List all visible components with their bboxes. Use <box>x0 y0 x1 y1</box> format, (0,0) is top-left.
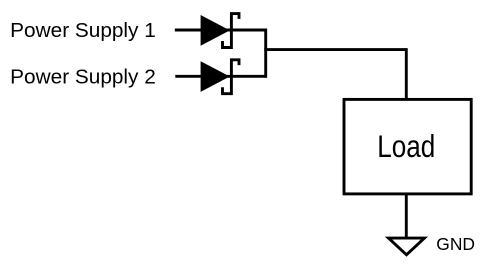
wire output vertical to load <box>405 48 408 101</box>
diode D1 Schottky cathode <box>223 14 240 48</box>
wire input 2 <box>175 75 267 78</box>
svg-text:Power Supply 1: Power Supply 1 <box>10 20 156 42</box>
svg-text:GND: GND <box>436 234 475 254</box>
diode D2 anode triangle <box>201 61 230 92</box>
diode D2 Schottky cathode <box>223 60 240 94</box>
wire input 1 <box>175 29 267 32</box>
svg-text:Load: Load <box>377 128 435 164</box>
svg-text:Power Supply 2: Power Supply 2 <box>10 66 156 88</box>
wire load to ground <box>405 193 408 240</box>
wire junction bar <box>264 29 267 78</box>
diode D1 anode triangle <box>201 15 230 46</box>
load box <box>344 99 471 193</box>
ground symbol <box>389 238 425 255</box>
wire output horizontal <box>264 48 406 51</box>
